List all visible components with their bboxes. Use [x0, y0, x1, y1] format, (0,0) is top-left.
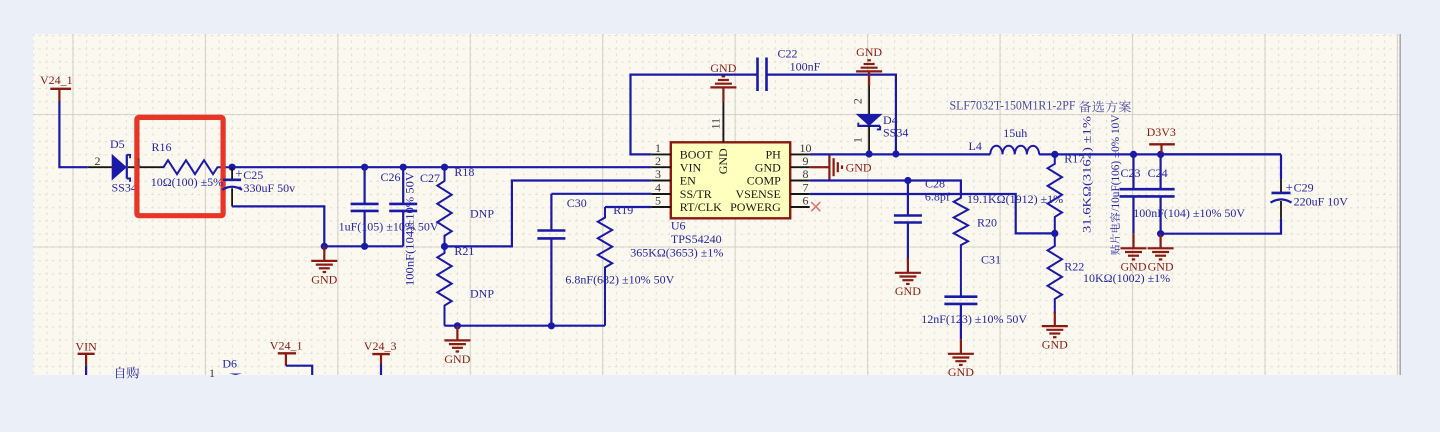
svg-text:GND: GND — [948, 365, 974, 379]
svg-text:GND: GND — [1121, 260, 1147, 274]
svg-text:R22: R22 — [1064, 260, 1084, 274]
svg-text:6.8nF(682) ±10% 50V: 6.8nF(682) ±10% 50V — [565, 272, 674, 286]
svg-text:12nF(123) ±10% 50V: 12nF(123) ±10% 50V — [921, 312, 1027, 326]
svg-text:5: 5 — [655, 194, 661, 208]
wire C25 to GND rail — [232, 206, 324, 246]
svg-text:DNP: DNP — [470, 207, 494, 221]
svg-text:+: + — [235, 166, 242, 181]
pin 9 GND — [790, 166, 810, 168]
op-amp U6 TPS54240 body — [671, 142, 790, 218]
capacitor C26 — [364, 167, 366, 204]
svg-text:POWERG: POWERG — [730, 200, 781, 214]
svg-text:8: 8 — [803, 167, 809, 181]
svg-text:C29: C29 — [1294, 181, 1314, 195]
pin 8 COMP — [790, 180, 810, 182]
ground under C23 — [1132, 234, 1134, 249]
capacitor C24 — [1159, 154, 1161, 189]
svg-text:COMP: COMP — [747, 174, 781, 188]
svg-text:V24_1: V24_1 — [270, 339, 303, 353]
pin 3 EN — [651, 180, 671, 182]
diode D5 pin 1 — [128, 166, 163, 168]
svg-text:R19: R19 — [613, 203, 633, 217]
diode D5 pin 2 — [88, 166, 112, 168]
resistor R18 DNP — [437, 167, 451, 246]
ground under C28 — [907, 258, 909, 273]
capacitor C29 — [1280, 179, 1282, 193]
diode D5 SS34 — [112, 154, 127, 181]
svg-text:1uF(105) ±10% 50V: 1uF(105) ±10% 50V — [339, 220, 439, 234]
pin 4 SS/TR — [651, 193, 671, 195]
svg-text:D6: D6 — [222, 356, 237, 370]
svg-text:GND: GND — [311, 272, 337, 286]
svg-text:C31: C31 — [981, 253, 1001, 267]
PH rail — [810, 153, 991, 155]
capacitor C27 — [402, 167, 404, 204]
wire C22 to PH — [767, 75, 896, 154]
node VIN rail — [229, 164, 236, 171]
svg-text:GND: GND — [1042, 338, 1068, 352]
ground under R22 — [1054, 312, 1056, 327]
svg-text:R18: R18 — [454, 165, 474, 179]
pin 5 RT/CLK — [651, 206, 671, 208]
svg-text:GND: GND — [1148, 260, 1174, 274]
pin 1 BOOT — [651, 153, 671, 155]
svg-text:GND: GND — [755, 160, 781, 174]
output loop to C29 — [1161, 153, 1281, 155]
svg-text:R16: R16 — [152, 140, 172, 154]
svg-text:GND: GND — [716, 148, 730, 174]
ground under C26 — [323, 246, 325, 261]
svg-text:GND: GND — [710, 61, 736, 75]
schematic sheet — [33, 34, 1401, 375]
svg-text:C22: C22 — [778, 47, 798, 61]
pin 7 VSENSE — [790, 193, 810, 195]
C23/C24 note vertical — [1108, 114, 1122, 254]
svg-text:1: 1 — [851, 137, 865, 143]
svg-text:31.6KΩ(3162) ±1%: 31.6KΩ(3162) ±1% — [1080, 116, 1094, 233]
capacitor C23 — [1132, 154, 1134, 189]
ground under C24 — [1159, 234, 1161, 249]
capacitor C28 — [907, 181, 909, 216]
svg-text:GND: GND — [895, 284, 921, 298]
capacitor C30 — [550, 194, 552, 231]
no-ERC cross pin 6 — [811, 202, 820, 211]
wire BOOT to C22 — [631, 75, 758, 155]
wire COMP — [810, 181, 961, 196]
pin 11 GND top — [722, 102, 724, 142]
pin 6 POWERG — [790, 206, 810, 208]
svg-text:SLF7032T-150M1R1-2PF: SLF7032T-150M1R1-2PF — [950, 98, 1076, 113]
resistor R21 DNP — [437, 246, 451, 325]
svg-text:V24_3: V24_3 — [364, 339, 397, 353]
svg-text:6.8pf: 6.8pf — [925, 190, 950, 204]
resistor R17 — [1048, 154, 1062, 233]
svg-text:VSENSE: VSENSE — [735, 187, 780, 201]
svg-text:19.1KΩ(1912) ±1%: 19.1KΩ(1912) ±1% — [967, 192, 1063, 206]
svg-text:GND: GND — [444, 352, 470, 366]
bottom rail R21/C30/R19 — [445, 325, 606, 327]
svg-text:330uF 50v: 330uF 50v — [244, 181, 296, 195]
pin 10 PH — [790, 153, 810, 155]
wire VSENSE to divider — [810, 194, 1055, 233]
svg-text:9: 9 — [803, 154, 809, 168]
resistor R22 — [1048, 233, 1062, 313]
svg-text:C23: C23 — [1121, 166, 1141, 180]
svg-text:RT/CLK: RT/CLK — [680, 200, 722, 214]
note text — [116, 367, 124, 379]
gnd rail — [324, 245, 403, 247]
svg-text:C28: C28 — [925, 176, 945, 190]
wire EN divider to pin3 — [445, 181, 652, 247]
svg-text:11: 11 — [709, 118, 723, 130]
svg-text:220uF 10V: 220uF 10V — [1294, 194, 1349, 208]
svg-text:SS34: SS34 — [112, 181, 137, 195]
svg-text:C24: C24 — [1148, 166, 1168, 180]
svg-text:3: 3 — [655, 167, 661, 181]
svg-text:GND: GND — [846, 161, 872, 175]
svg-text:4: 4 — [655, 181, 661, 195]
svg-text:15uh: 15uh — [1003, 126, 1027, 140]
svg-text:SS/TR: SS/TR — [680, 187, 712, 201]
svg-text:1: 1 — [136, 154, 142, 168]
svg-text:100nF: 100nF — [790, 60, 821, 74]
svg-text:D3V3: D3V3 — [1147, 125, 1176, 139]
svg-text:7: 7 — [803, 181, 809, 195]
C27 value vertical — [403, 172, 417, 286]
svg-text:L4: L4 — [969, 139, 982, 153]
svg-text:DNP: DNP — [470, 287, 494, 301]
ground right of pin 9 — [823, 166, 830, 168]
svg-text:GND: GND — [856, 45, 882, 59]
svg-text:D5: D5 — [110, 137, 125, 151]
wire pin4 to C30 — [551, 193, 651, 195]
svg-text:+: + — [1286, 180, 1293, 195]
capacitor C25 — [231, 167, 233, 180]
ground at pin 11 (inverted) — [722, 87, 724, 102]
wire V24_1 to D5 — [59, 101, 87, 167]
ground under C31 — [960, 339, 962, 354]
svg-text:R20: R20 — [977, 216, 997, 230]
svg-text:2: 2 — [655, 154, 661, 168]
svg-text:SS34: SS34 — [883, 125, 908, 139]
svg-text:2: 2 — [851, 98, 865, 104]
svg-text:2: 2 — [95, 154, 101, 168]
svg-text:6: 6 — [803, 194, 809, 208]
svg-text:C26: C26 — [381, 170, 401, 184]
svg-text:365KΩ(3653) ±1%: 365KΩ(3653) ±1% — [630, 246, 723, 260]
capacitor C22 — [756, 58, 759, 92]
svg-text:100nF(104) ±10% 50V: 100nF(104) ±10% 50V — [1133, 206, 1245, 220]
red highlight box around R16 — [137, 117, 223, 215]
resistor R19 — [598, 207, 612, 326]
svg-text:10Ω(100) ±5%: 10Ω(100) ±5% — [151, 175, 224, 189]
resistor R16 — [163, 160, 232, 174]
svg-text:100nF(104)±10% 50V: 100nF(104)±10% 50V — [403, 172, 417, 286]
svg-text:1: 1 — [209, 366, 215, 380]
svg-text:VIN: VIN — [75, 340, 97, 354]
ground above D4 — [868, 71, 870, 86]
diode D4 SS34 — [856, 114, 883, 126]
ground under R21 — [456, 326, 458, 341]
svg-text:C27: C27 — [420, 171, 440, 185]
svg-text:C30: C30 — [567, 196, 587, 210]
svg-text:VIN: VIN — [680, 160, 702, 174]
capacitor C31 — [944, 295, 977, 298]
svg-text:EN: EN — [680, 174, 696, 188]
resistor R20 — [954, 195, 968, 297]
svg-text:V24_1: V24_1 — [40, 73, 73, 87]
svg-text:U6: U6 — [671, 219, 686, 233]
svg-text:/10uF(106) ±0% 10V: /10uF(106) ±0% 10V — [1108, 114, 1122, 211]
svg-text:TPS54240: TPS54240 — [671, 232, 722, 246]
wire pin5 to R19 — [605, 206, 651, 208]
pin 2 VIN — [651, 166, 671, 168]
inductor L4 — [990, 146, 1039, 155]
